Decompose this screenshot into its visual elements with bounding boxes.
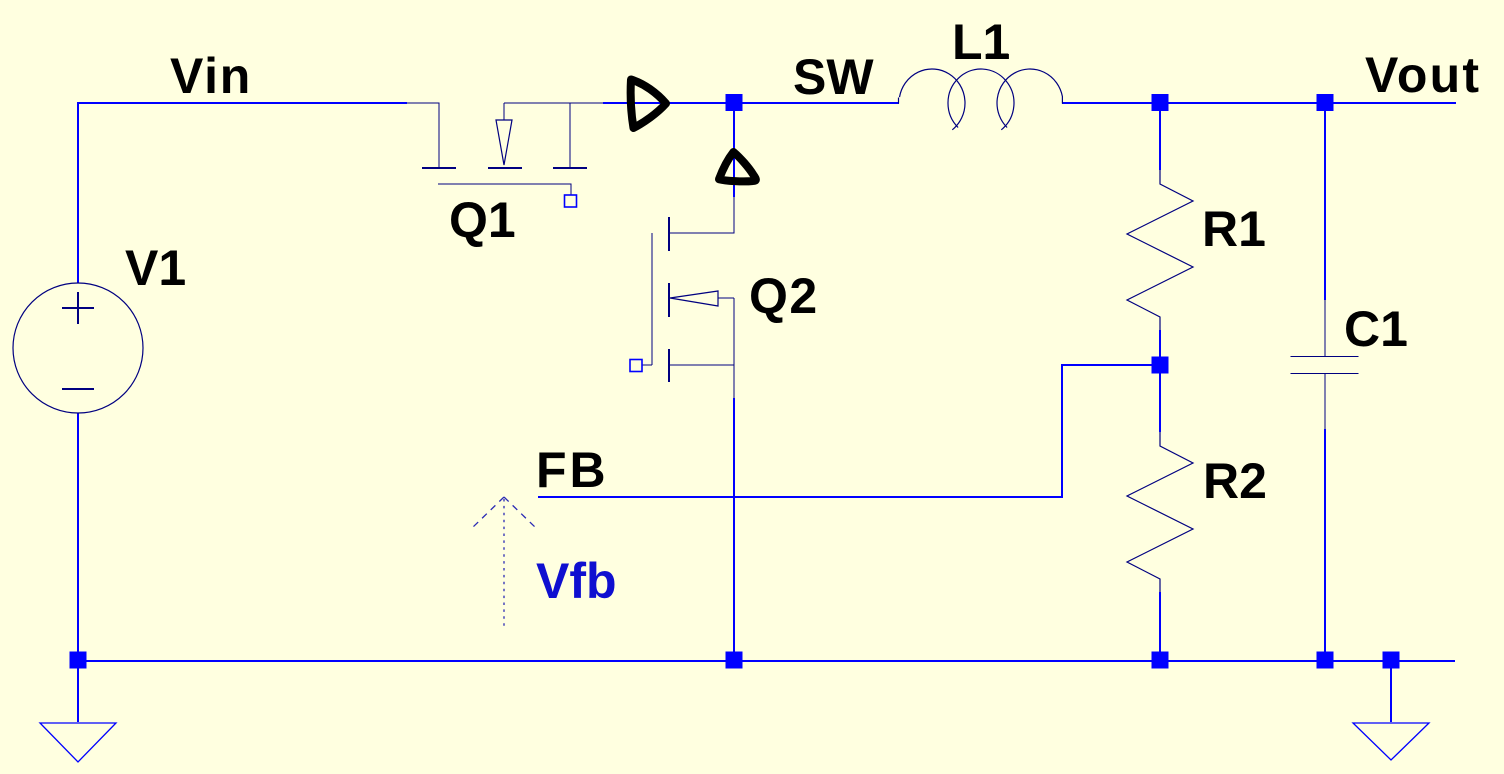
voltage source V1 bbox=[13, 283, 143, 413]
wire ground stub right bbox=[1390, 661, 1392, 722]
svg-text:L1: L1 bbox=[952, 14, 1010, 70]
wire C1 bottom bbox=[1324, 429, 1326, 661]
wire Vin: V1 top to Q1 drain bbox=[78, 103, 407, 283]
ground right bbox=[1353, 723, 1429, 760]
wire ground rail bbox=[78, 660, 1455, 662]
node ground C1 junction bbox=[1317, 652, 1334, 669]
svg-text:C1: C1 bbox=[1344, 301, 1408, 357]
svg-text:R2: R2 bbox=[1203, 453, 1267, 509]
svg-text:Vin: Vin bbox=[170, 48, 252, 104]
wire R1 bottom to FB node bbox=[1159, 330, 1161, 365]
wire SW: Q1 source to L1 left bbox=[603, 102, 899, 104]
pin square Q2 gate bbox=[630, 360, 642, 372]
wire ground stub left bbox=[77, 661, 79, 722]
node Vout junction bbox=[1317, 94, 1334, 111]
annotation arrow right (current direction at SW) bbox=[631, 80, 666, 129]
svg-text:FB: FB bbox=[536, 442, 609, 498]
resistor R2 bbox=[1127, 432, 1193, 592]
svg-text:Vout: Vout bbox=[1365, 47, 1481, 103]
svg-text:Q2: Q2 bbox=[749, 268, 819, 324]
node R1 top junction bbox=[1152, 94, 1169, 111]
node SW junction bbox=[726, 94, 743, 111]
ground left bbox=[40, 723, 116, 762]
wire Q2 drain bbox=[733, 103, 735, 197]
annotation arrow up (Q2 current) bbox=[719, 152, 756, 181]
transistor Q2 (NMOS) bbox=[642, 197, 734, 398]
node ground symbol junction bbox=[1383, 652, 1400, 669]
resistor R1 bbox=[1127, 170, 1193, 330]
wire Vout: L1 right to rail end bbox=[1062, 102, 1456, 104]
pin square Q1 gate bbox=[565, 195, 577, 207]
svg-text:R1: R1 bbox=[1202, 201, 1266, 257]
node ground Q2 junction bbox=[726, 652, 743, 669]
capacitor C1 bbox=[1291, 300, 1359, 429]
svg-text:SW: SW bbox=[793, 49, 874, 105]
svg-text:Q1: Q1 bbox=[449, 192, 516, 248]
node ground V1 junction bbox=[70, 652, 87, 669]
inductor L1 bbox=[899, 69, 1063, 130]
wire R2 bottom bbox=[1159, 592, 1161, 661]
wire R1 top bbox=[1159, 103, 1161, 170]
node ground R2 junction bbox=[1152, 652, 1169, 669]
svg-text:Vfb: Vfb bbox=[536, 553, 617, 609]
wire C1 top bbox=[1324, 103, 1326, 300]
wire FB node to FB line bbox=[538, 365, 1160, 497]
wire R2 top bbox=[1159, 365, 1161, 432]
svg-text:V1: V1 bbox=[125, 240, 186, 296]
wire V1 bottom bbox=[77, 413, 79, 661]
node FB divider junction bbox=[1152, 357, 1169, 374]
annotation dotted arrow Vfb bbox=[471, 497, 537, 628]
wire Q2 source down bbox=[733, 398, 735, 661]
transistor Q1 (PMOS, rotated) bbox=[407, 103, 603, 195]
